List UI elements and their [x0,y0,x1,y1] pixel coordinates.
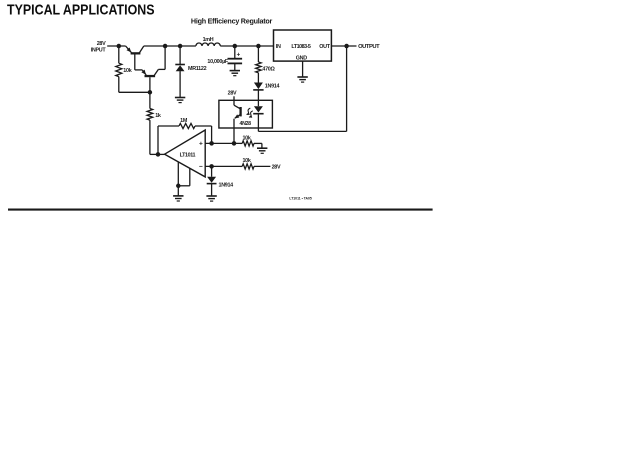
wire op-amp ground pins [178,162,190,196]
inductor L 1mH [196,37,220,46]
resistor 10k (emitter to ground) [240,136,262,149]
svg-text:28V: 28V [272,165,281,171]
svg-text:High Efficiency Regulator: High Efficiency Regulator [191,16,273,25]
svg-text:+: + [237,52,241,59]
capacitor C 10,000uF [207,46,242,71]
svg-text:10,000µF: 10,000µF [207,59,228,65]
wire feedback horizontal [258,130,346,132]
svg-text:10k: 10k [242,158,250,164]
svg-text:−: − [199,164,203,171]
node - input / clamp diode [209,164,214,169]
wire output node to apex [150,153,165,155]
svg-text:OUTPUT: OUTPUT [358,44,380,50]
transistor Q2 PNP [141,46,165,92]
svg-text:IN: IN [276,44,281,50]
ground right of 10k [257,148,267,153]
ground under MR1122 [175,98,185,103]
svg-text:28V: 28V [97,41,106,47]
wire inverting input line [205,165,240,167]
wire 28V to phototransistor collector [233,96,235,105]
wire input rail [107,45,125,47]
phototransistor inside 4N28 [234,105,241,143]
label OUTPUT [358,44,380,50]
svg-text:28V: 28V [228,90,237,96]
separator rule [8,209,433,211]
light arrows in 4N28 [246,108,253,117]
svg-text:1k: 1k [155,113,161,119]
ground under capacitor [230,71,240,76]
node comparator output [156,152,161,157]
transistor Q1 PNP [126,46,144,70]
subtitle High Efficiency Regulator [191,16,273,25]
svg-text:10k: 10k [123,68,131,74]
diode 1N914 (input clamp) [207,166,233,196]
resistor 10k (to 28V) [240,158,270,169]
node catch diode [178,44,183,49]
node Q1/Q2 collectors [163,44,168,49]
wire noninverting input line [205,142,240,144]
figure reference [289,197,311,201]
svg-text:INPUT: INPUT [91,48,107,54]
wire inductor to regulator IN [220,45,273,47]
svg-text:1M: 1M [180,118,188,124]
svg-text:LT1011 • TA05: LT1011 • TA05 [289,197,311,201]
label 28V bias [272,165,281,171]
wire feedback to LED cathode [257,114,259,132]
ground under clamp diode [206,196,216,201]
svg-text:TYPICAL APPLICATIONS: TYPICAL APPLICATIONS [7,2,155,19]
node Q2 base [148,90,153,95]
label 28V opto supply [228,90,237,96]
svg-text:4N28: 4N28 [239,121,251,127]
LED inside 4N28 [253,100,263,113]
node ground pins [176,184,181,189]
ground under comparator [173,196,183,201]
svg-text:MR1122: MR1122 [188,66,207,72]
title TYPICAL APPLICATIONS [7,2,155,19]
resistor 1M (hysteresis) [158,118,212,154]
diode 1N914 (LED feed) [253,83,279,101]
svg-text:1N914: 1N914 [265,84,280,90]
wire collector rail [144,45,196,47]
svg-text:GND: GND [296,55,307,61]
ground under regulator [297,77,307,82]
svg-text:1mH: 1mH [203,37,214,43]
node input [117,44,122,49]
label 28V INPUT [91,41,107,54]
node 470 ohm tap [256,44,261,49]
node filter cap [233,44,238,49]
wire regulator GND pin [302,61,304,77]
wire output feedback down [346,46,348,131]
resistor 1k (drive) [147,92,161,154]
resistor R 10k (input to Q2 base) [116,46,132,92]
wire 10k bottom to Q2 base node [119,91,150,93]
svg-text:+: + [199,141,203,148]
node phototransistor emitter [232,141,237,146]
diode MR1122 [175,46,206,98]
svg-text:LT1083-5: LT1083-5 [291,44,310,50]
node OUTPUT [344,44,349,49]
svg-text:OUT: OUT [319,44,330,50]
svg-text:LT1011: LT1011 [180,152,196,158]
svg-text:1N914: 1N914 [219,182,234,188]
resistor 470 ohm [256,46,276,83]
optocoupler U3 4N28 box [219,100,273,128]
svg-text:10k: 10k [242,136,250,142]
comparator U1 LT1011 [165,130,206,177]
regulator U2 LT1083-5 [274,30,332,61]
node + input / 1M [209,141,214,146]
svg-text:470Ω: 470Ω [262,66,275,72]
wire OUT to OUTPUT [331,45,356,47]
